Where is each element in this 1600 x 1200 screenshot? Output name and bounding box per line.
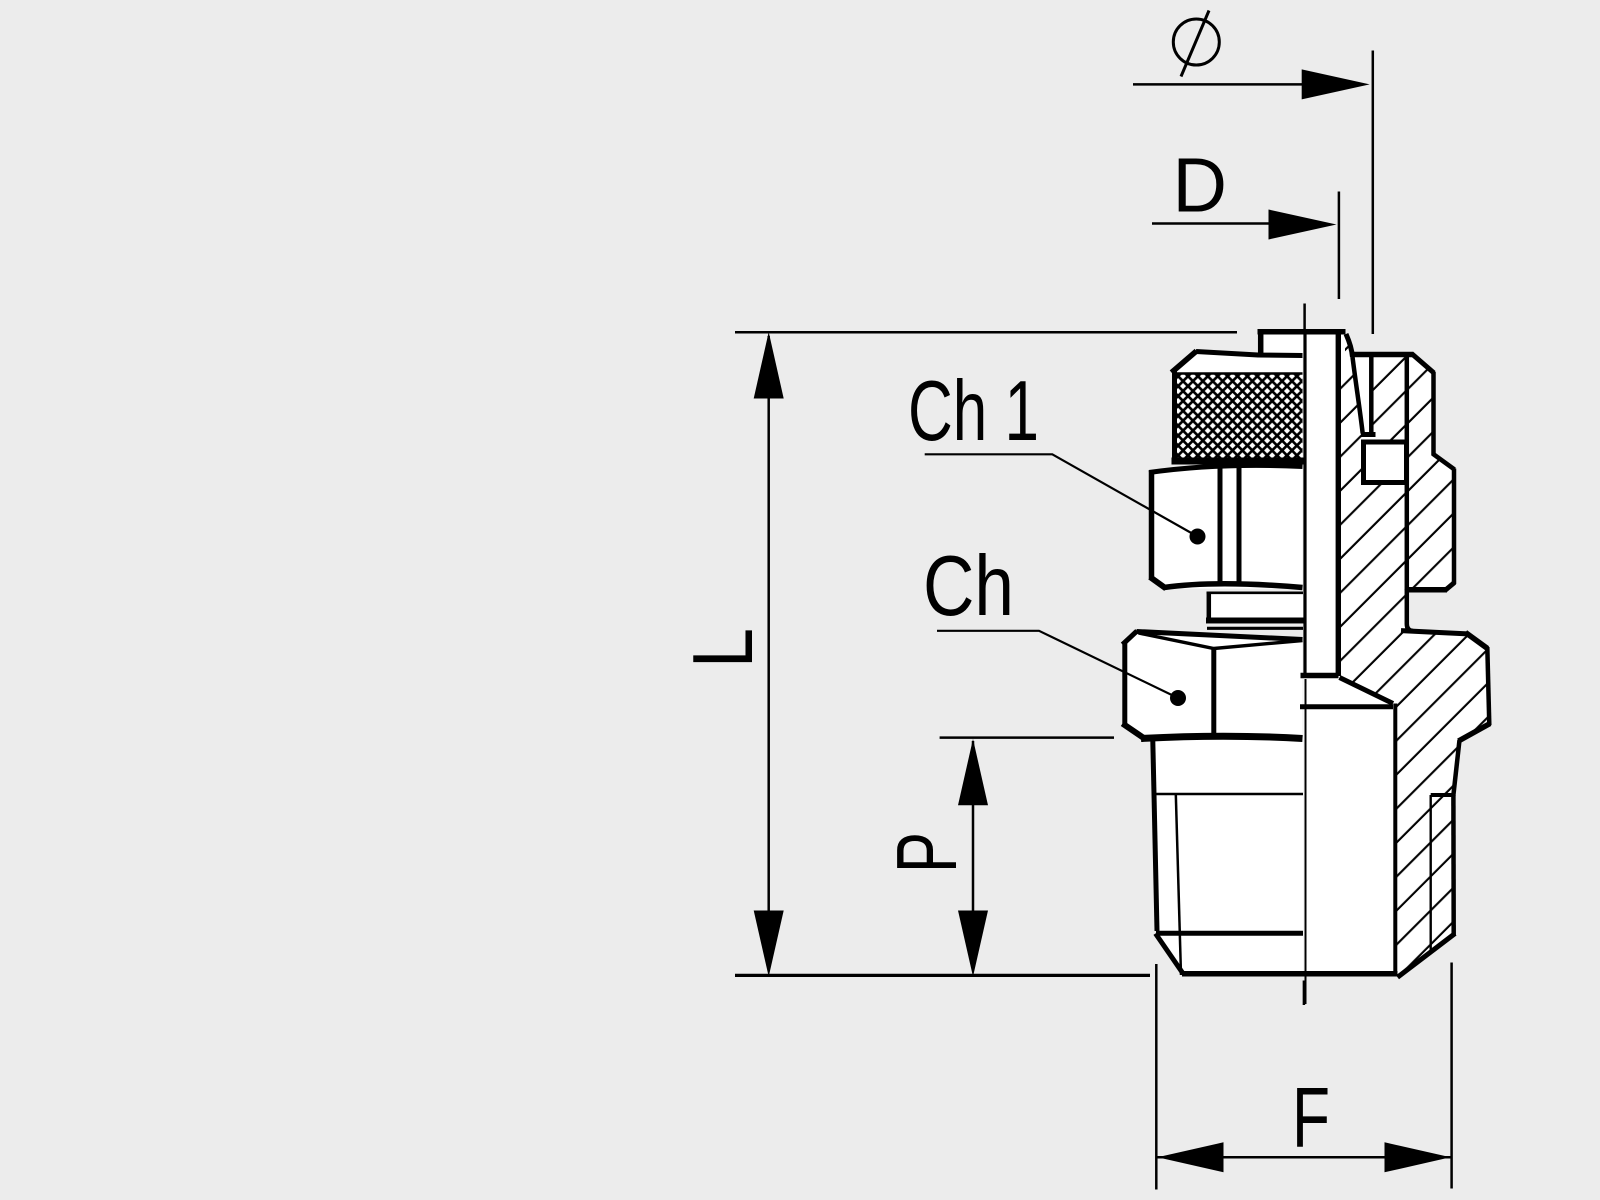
svg-text:Ch 1: Ch 1 xyxy=(908,364,1039,459)
svg-text:P: P xyxy=(880,832,975,873)
svg-text:L: L xyxy=(676,628,771,668)
svg-text:F: F xyxy=(1292,1071,1330,1166)
svg-text:Ch: Ch xyxy=(923,539,1014,634)
svg-text:D: D xyxy=(1173,143,1228,229)
